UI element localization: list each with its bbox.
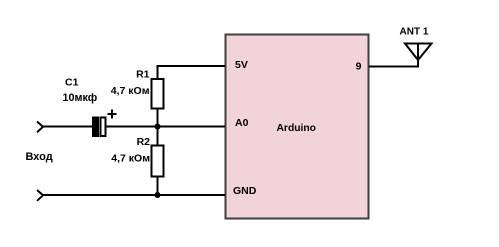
svg-text:9: 9 (356, 61, 362, 73)
svg-text:4,7 кОм: 4,7 кОм (111, 153, 150, 165)
svg-text:ANT 1: ANT 1 (400, 26, 429, 37)
svg-text:GND: GND (233, 185, 257, 197)
svg-text:4,7 кОм: 4,7 кОм (111, 85, 150, 97)
svg-text:R1: R1 (136, 68, 150, 80)
svg-text:Arduino: Arduino (277, 123, 316, 134)
svg-text:C1: C1 (65, 77, 79, 89)
svg-text:10мкф: 10мкф (63, 92, 98, 104)
svg-text:R2: R2 (137, 136, 151, 148)
svg-text:A0: A0 (235, 117, 249, 129)
svg-text:5V: 5V (235, 59, 248, 71)
svg-text:Вход: Вход (26, 151, 53, 163)
